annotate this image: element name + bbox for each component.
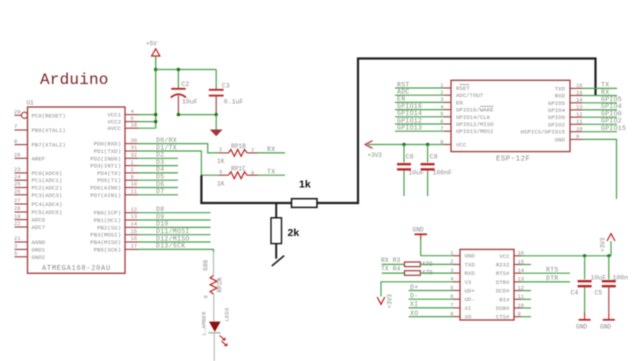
svg-text:GPIO13: GPIO13 [397, 125, 422, 132]
svg-text:CTS#: CTS# [496, 314, 510, 321]
resistor RP1B 1K [217, 143, 258, 165]
svg-text:HSPICS/GPIO15: HSPICS/GPIO15 [521, 129, 566, 136]
svg-text:ADC6: ADC6 [32, 217, 46, 224]
net label ADC [397, 89, 410, 96]
svg-text:GPIO2: GPIO2 [601, 118, 622, 125]
ESP pin 12 GPIO0 [548, 111, 583, 121]
wire RTS [521, 272, 570, 274]
serial IC pin 9 CTS# [496, 311, 521, 321]
svg-text:D3: D3 [156, 159, 164, 166]
svg-text:D6: D6 [156, 181, 164, 188]
svg-text:XI: XI [410, 301, 418, 308]
svg-text:PB1(OC1): PB1(OC1) [94, 217, 121, 224]
wire +5V vertical [155, 56, 157, 128]
LED LED3 L_AMBER [201, 307, 231, 346]
wire RST [395, 87, 444, 89]
svg-text:DCD#: DCD# [496, 288, 510, 295]
U1 pin 17 PB5(SCK) [94, 243, 138, 254]
net label DTR [546, 275, 559, 282]
wire GPIO2 [582, 123, 617, 125]
svg-text:D7: D7 [156, 188, 164, 195]
serial IC pin 4 V3 [450, 276, 472, 286]
svg-text:25: 25 [14, 181, 21, 188]
junction C3 bottom [215, 113, 218, 116]
svg-text:PB7(XTAL2): PB7(XTAL2) [32, 142, 66, 149]
svg-text:7: 7 [14, 123, 17, 130]
net label TX [267, 168, 275, 175]
net label XO [410, 310, 418, 317]
svg-text:D2: D2 [156, 152, 164, 159]
svg-text:28: 28 [14, 205, 21, 212]
U1 pin 22 ADC7 [14, 220, 45, 231]
svg-text:C4: C4 [571, 290, 579, 297]
svg-text:AREF: AREF [32, 155, 46, 162]
svg-text:GPIO14: GPIO14 [397, 110, 422, 117]
svg-text:DTR#: DTR# [496, 279, 510, 286]
svg-text:17: 17 [131, 243, 138, 250]
svg-text:RTS#: RTS# [496, 270, 510, 277]
ESP pin 3 EN [440, 96, 463, 106]
svg-text:TX: TX [601, 82, 609, 89]
wire D10 [138, 226, 211, 228]
svg-text:24: 24 [14, 173, 21, 180]
svg-text:AGND: AGND [32, 239, 46, 246]
svg-text:GPIO16/WAKE: GPIO16/WAKE [456, 107, 494, 114]
ESP pin 1 RSET [440, 82, 470, 92]
ESP pin 16 TXD [555, 82, 583, 92]
ESP pin 8 VCC [440, 138, 467, 148]
svg-text:RI#: RI# [499, 296, 510, 303]
svg-text:PB5(SCK): PB5(SCK) [94, 246, 121, 253]
svg-text:D10: D10 [156, 221, 169, 228]
svg-text:RST: RST [397, 81, 410, 88]
wire D1/TX [138, 151, 219, 175]
wire D7 [138, 194, 178, 196]
svg-text:ADC/TOUT: ADC/TOUT [456, 92, 484, 99]
wire GPIO16 [395, 109, 444, 111]
U1 pin 9 PD5(T1) [97, 173, 138, 184]
wire GPIO12 [395, 123, 444, 125]
svg-text:U1: U1 [27, 100, 35, 107]
U1 pin 23 PC0(ADC0) [14, 166, 62, 177]
U1 pin 30 PD0(RXD) [94, 137, 138, 148]
svg-text:D0/RX: D0/RX [156, 137, 177, 144]
svg-text:8: 8 [203, 295, 210, 298]
ground under C5 [600, 312, 615, 330]
capacitor C3 [209, 83, 244, 115]
wire V3 to +3V3 [381, 282, 453, 297]
U1 pin 11 PD7(AIN1) [90, 188, 138, 199]
capacitor C2 (polarized) [171, 81, 198, 115]
svg-text:GND: GND [555, 136, 566, 143]
wire caps bottom rail [178, 114, 216, 116]
net label RST [397, 81, 410, 88]
IC ESP-12F body [451, 80, 570, 151]
resistor 1k [292, 179, 318, 208]
junction C5 [607, 254, 610, 257]
ESP pin 15 RXD [555, 89, 583, 99]
serial IC pin 8 XO [450, 310, 472, 320]
U1 pin 3 GND1 [14, 243, 46, 254]
svg-text:GND2: GND2 [32, 254, 46, 261]
svg-text:D11/MOSI: D11/MOSI [156, 228, 190, 235]
wire RX out [258, 152, 285, 154]
svg-text:PB3(MOSI): PB3(MOSI) [90, 232, 121, 239]
svg-text:RSET: RSET [456, 85, 470, 92]
wire D9 [138, 219, 211, 221]
serial IC pin 15 R232 [496, 258, 524, 268]
svg-text:D9: D9 [156, 213, 164, 220]
net label D+ [410, 284, 418, 291]
net label D10 [156, 221, 169, 228]
wire DSR stub [521, 307, 531, 309]
svg-text:UD-: UD- [465, 296, 475, 303]
svg-text:DTR: DTR [546, 275, 559, 282]
capacitor C4 10uF [571, 256, 607, 313]
capacitor C8 100nF [421, 145, 453, 197]
net label D6 [156, 181, 164, 188]
U1 pin 14 PB2(SS) [97, 221, 138, 232]
svg-text:PC3(ADC3): PC3(ADC3) [32, 192, 63, 199]
U1 pin 6 VCC2 [107, 115, 138, 126]
net label GPIO0 [601, 111, 622, 118]
svg-text:10: 10 [131, 181, 138, 188]
serial IC pin 11 RI# [499, 293, 525, 303]
svg-text:XI: XI [465, 305, 472, 312]
U1 pin 29 PC6(RESET) [14, 109, 66, 120]
wire D4 [138, 172, 178, 174]
svg-text:C2: C2 [182, 81, 190, 88]
net label GPIO14 [397, 110, 422, 117]
ESP pin 13 GPIO4 [548, 104, 583, 114]
wire D+ [409, 290, 453, 292]
junction C2 top [177, 68, 180, 71]
svg-text:RX: RX [601, 89, 609, 96]
wire D3 [138, 165, 178, 167]
svg-text:PC0(ADC0): PC0(ADC0) [32, 170, 63, 177]
power +5V symbol [146, 41, 160, 57]
svg-text:GND1: GND1 [32, 246, 46, 253]
wire RX [582, 95, 617, 97]
svg-text:TXD: TXD [465, 261, 476, 268]
net label D9 [156, 213, 164, 220]
svg-text:PD6(AIN0): PD6(AIN0) [90, 185, 121, 192]
wire EN [395, 101, 444, 103]
net label EN [397, 96, 405, 103]
svg-text:C6: C6 [406, 154, 414, 161]
svg-text:AVCC: AVCC [107, 125, 121, 132]
svg-text:DSR#: DSR# [496, 305, 510, 312]
wire TX to R4 [382, 272, 405, 274]
svg-text:GPIO2: GPIO2 [548, 121, 566, 128]
resistor R4 470 [405, 270, 433, 277]
svg-text:RTS: RTS [546, 266, 559, 273]
ESP pin 11 GPIO2 [548, 118, 583, 128]
U1 pin 8 PB7(XTAL2) [14, 138, 66, 149]
switch slash [272, 256, 284, 266]
svg-text:RP1C: RP1C [231, 165, 246, 172]
wire D11/MOSI [138, 234, 211, 236]
wire to resistor RP2A [213, 252, 215, 276]
svg-text:+3V3: +3V3 [387, 294, 394, 309]
svg-text:3: 3 [219, 168, 222, 175]
U1 pin 19 ADC6 [14, 213, 46, 224]
U1 pin 15 PB3(MOSI) [90, 228, 138, 239]
svg-text:PB2(SS): PB2(SS) [97, 224, 121, 231]
svg-text:PC4(ADC4): PC4(ADC4) [32, 201, 63, 208]
svg-text:D-: D- [410, 293, 418, 300]
wire RP2A to LED3 [213, 294, 215, 322]
svg-text:+3V3: +3V3 [368, 152, 383, 159]
net label RX R3 [381, 257, 401, 264]
svg-text:27: 27 [14, 197, 21, 204]
net label D7 [156, 188, 164, 195]
junction +5V/VCC1 [154, 113, 157, 116]
ground under C4 [576, 312, 591, 330]
svg-text:GND: GND [465, 253, 476, 260]
wire TX out [258, 174, 285, 176]
svg-text:GPIO13/MOSI: GPIO13/MOSI [456, 128, 494, 135]
svg-text:2k: 2k [288, 227, 300, 239]
net label D0/RX [156, 137, 177, 144]
svg-text:GPIO12/MISO: GPIO12/MISO [456, 121, 494, 128]
svg-text:GPIO12: GPIO12 [397, 117, 422, 124]
wire DCD stub [521, 290, 531, 292]
U1 pin 28 PC5(ADC5) [14, 205, 62, 216]
net label GPIO15 [601, 125, 626, 132]
resistor 2k [271, 218, 299, 244]
svg-text:100n: 100n [613, 275, 629, 282]
svg-text:VCC1: VCC1 [107, 112, 121, 119]
svg-text:13: 13 [131, 213, 138, 220]
U1 pin 5 GND2 [14, 250, 46, 261]
svg-text:C5: C5 [595, 290, 603, 297]
svg-text:PC2(ADC2): PC2(ADC2) [32, 185, 63, 192]
svg-text:2: 2 [131, 166, 134, 173]
wire black TX link [201, 59, 595, 204]
wire R3 to pin2 [420, 263, 453, 265]
svg-text:TX: TX [267, 168, 275, 175]
svg-text:PC6(RESET): PC6(RESET) [32, 112, 66, 119]
U1 pin 27 PC4(ADC4) [14, 197, 62, 208]
wire +5V to caps top rail [156, 69, 217, 71]
U1 pin 25 PC2(ADC2) [14, 181, 62, 192]
svg-text:6: 6 [251, 170, 254, 177]
svg-text:PD7(AIN1): PD7(AIN1) [90, 192, 121, 199]
wire GPIO0 [582, 116, 617, 118]
svg-text:GPIO5: GPIO5 [601, 96, 622, 103]
svg-text:RX R3: RX R3 [381, 257, 401, 264]
wire RI stub [521, 298, 531, 300]
svg-text:+5V: +5V [146, 41, 157, 48]
svg-text:9: 9 [131, 173, 134, 180]
svg-text:GPIO15: GPIO15 [601, 125, 626, 132]
junction C6 [402, 143, 405, 146]
ground under C3 [210, 115, 223, 137]
ground symbol above serial IC [413, 227, 428, 240]
svg-text:22: 22 [14, 220, 21, 227]
power +3V3 arrow up right [600, 234, 616, 256]
svg-text:31: 31 [131, 144, 138, 151]
U1 pin 18 AVCC [107, 121, 138, 132]
wire D5 [138, 179, 178, 181]
svg-text:4: 4 [131, 108, 135, 115]
svg-text:PD0(RXD): PD0(RXD) [94, 141, 121, 148]
U1 pin 20 AREF [14, 152, 46, 163]
svg-text:1K: 1K [217, 180, 225, 187]
svg-text:680: 680 [203, 260, 210, 271]
wire GPIO15 [582, 131, 617, 133]
wire CTS stub [521, 316, 531, 318]
wire XO [409, 316, 453, 318]
ESP pin 6 GPIO12/MISO [440, 118, 494, 128]
net label D5 [156, 174, 164, 181]
svg-text:VCC: VCC [499, 253, 510, 260]
svg-text:PC1(ADC1): PC1(ADC1) [32, 177, 63, 184]
wire R4 to pin3 [420, 272, 453, 274]
ESP pin 14 GPIO5 [548, 97, 583, 107]
svg-text:VCC: VCC [456, 142, 467, 149]
serial IC pin 1 GND [450, 250, 475, 260]
resistor R3 470 [405, 261, 433, 268]
svg-text:23: 23 [14, 166, 21, 173]
U1 pin 7 PB6(XTAL1) [14, 123, 66, 134]
svg-text:10uF: 10uF [182, 99, 198, 106]
svg-text:GPIO4: GPIO4 [601, 103, 622, 110]
wire ESP GND down [582, 139, 617, 199]
svg-text:PB6(XTAL1): PB6(XTAL1) [32, 127, 66, 134]
svg-text:20: 20 [14, 152, 21, 159]
U1 pin 12 PB0(ICP) [94, 206, 138, 217]
ESP pin 7 GPIO13/MOSI [440, 125, 493, 135]
net label GPIO5 [601, 96, 622, 103]
svg-text:RXD: RXD [555, 93, 566, 100]
svg-text:14: 14 [131, 221, 138, 228]
svg-text:29: 29 [14, 109, 21, 116]
wire R232 stub [521, 264, 531, 266]
svg-text:GND: GND [413, 227, 424, 234]
ESP pin 4 GPIO16/WAKE [440, 103, 494, 113]
wire VCC 3V3 rail [521, 255, 611, 257]
net label GPIO12 [397, 117, 422, 124]
svg-text:PD2(IND0): PD2(IND0) [90, 155, 121, 162]
IC U1 ATMEGA168-20AU body [27, 100, 126, 274]
svg-text:+3V3: +3V3 [600, 237, 607, 252]
svg-text:0.1uF: 0.1uF [224, 99, 244, 106]
svg-text:1K: 1K [217, 158, 225, 165]
svg-text:18: 18 [131, 121, 138, 128]
wire C3 top stem [215, 70, 217, 90]
wire D2 [138, 157, 178, 159]
svg-text:RP2A: RP2A [217, 277, 224, 292]
net label XI [410, 301, 418, 308]
U1 pin 1 PD3(INT1) [90, 159, 138, 170]
label ESP-12F [496, 156, 530, 164]
svg-text:1k: 1k [299, 179, 311, 191]
svg-text:11: 11 [131, 188, 138, 195]
junction +5V branch to capacitors [154, 68, 157, 71]
svg-text:32: 32 [131, 152, 138, 159]
wire LED3 cathode down [213, 333, 215, 361]
wire DTR [521, 281, 570, 283]
wire D13/SCK [138, 249, 214, 252]
svg-text:8: 8 [14, 138, 17, 145]
wire GPIO14 [395, 116, 444, 118]
U1 pin 26 PC3(ADC3) [14, 188, 62, 199]
serial IC pin 7 XI [450, 302, 471, 312]
power +3V3 arrow left [365, 141, 382, 159]
resistor RP1C 1K [217, 165, 258, 187]
svg-text:RXD: RXD [465, 270, 476, 277]
wire ADC [395, 94, 444, 96]
serial IC pin 12 DCD# [496, 284, 524, 294]
serial IC pin 5 UD+ [450, 284, 475, 294]
wire D12/MISO [138, 241, 211, 243]
net label RX [601, 89, 609, 96]
wire D0/RX [138, 144, 219, 153]
svg-text:GPIO0: GPIO0 [601, 111, 622, 118]
label ATMEGA168-20AU [42, 265, 111, 273]
IC USB-serial body [460, 249, 514, 320]
svg-text:GND: GND [600, 324, 611, 331]
svg-text:26: 26 [14, 188, 21, 195]
svg-text:100nF: 100nF [433, 170, 453, 177]
svg-text:12: 12 [131, 206, 138, 213]
svg-text:GPIO14/CLK: GPIO14/CLK [456, 114, 491, 121]
svg-text:XO: XO [410, 310, 418, 317]
svg-text:PD5(T1): PD5(T1) [97, 177, 121, 184]
svg-text:D1/TX: D1/TX [156, 144, 177, 151]
wire GPIO13 [395, 130, 444, 132]
resistor RP2A 680 [203, 260, 224, 299]
ESP pin 10 HSPICS/GPIO15 [521, 126, 583, 136]
serial IC pin 6 UD- [450, 293, 475, 303]
junction +5V/VCC2 [154, 120, 157, 123]
net label D11/MOSI [156, 228, 190, 235]
U1 pin 2 PD4(T0) [97, 166, 138, 177]
svg-text:L_AMBER: L_AMBER [201, 311, 208, 335]
net label RX [267, 146, 275, 153]
power +3V3 arrow down [377, 294, 393, 309]
wire black 2k branch [275, 203, 277, 259]
U1 pin 16 PB4(MISO) [90, 235, 138, 246]
svg-text:3: 3 [14, 243, 17, 250]
svg-text:19: 19 [14, 213, 21, 220]
svg-text:GPIO4: GPIO4 [548, 107, 566, 114]
svg-text:1: 1 [131, 159, 135, 166]
U1 pin 4 VCC1 [107, 108, 138, 119]
svg-text:EN: EN [456, 99, 463, 106]
net label D12/MISO [156, 235, 190, 242]
wire TX [582, 87, 617, 89]
U1 pin 32 PD2(IND0) [90, 152, 138, 163]
svg-text:RX: RX [267, 146, 275, 153]
svg-text:16: 16 [131, 235, 138, 242]
svg-text:D12/MISO: D12/MISO [156, 235, 190, 242]
svg-text:PB0(ICP): PB0(ICP) [94, 210, 121, 217]
svg-text:Arduino: Arduino [40, 71, 109, 89]
wire D6 [138, 187, 178, 189]
junction C2 bottom [177, 113, 180, 116]
svg-text:GPIO0: GPIO0 [548, 114, 566, 121]
wire RX to R3 [382, 263, 405, 265]
U1 pin 10 PD6(AIN0) [90, 181, 138, 192]
svg-text:PC5(ADC5): PC5(ADC5) [32, 209, 63, 216]
net label D3 [156, 159, 164, 166]
svg-text:LED3: LED3 [224, 307, 231, 321]
svg-text:D8: D8 [156, 206, 164, 213]
net label D13/SCK [156, 243, 185, 250]
